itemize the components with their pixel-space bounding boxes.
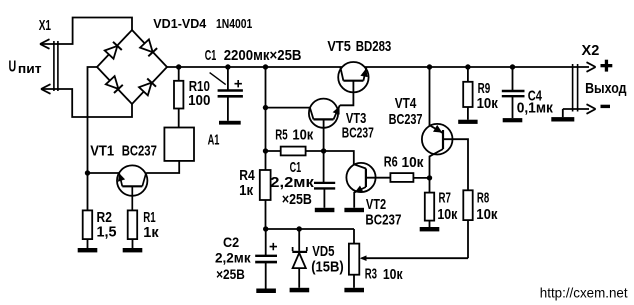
svg-text:R3: R3	[365, 266, 377, 282]
svg-text:(15В): (15В)	[311, 259, 344, 275]
svg-text:R5: R5	[275, 127, 287, 143]
svg-text:U: U	[9, 58, 17, 75]
svg-text:2,2мк: 2,2мк	[270, 175, 314, 191]
svg-text:R8: R8	[477, 190, 489, 206]
svg-text:10к: 10к	[383, 267, 403, 283]
svg-text:A1: A1	[208, 132, 220, 148]
svg-text:C2: C2	[223, 235, 239, 250]
svg-text:BD283: BD283	[356, 39, 392, 55]
svg-text:0,1мк: 0,1мк	[517, 100, 554, 116]
svg-text:×25В: ×25В	[282, 192, 312, 208]
svg-text:1к: 1к	[239, 183, 254, 199]
svg-text:пит: пит	[18, 61, 42, 76]
svg-text:R6: R6	[384, 155, 398, 171]
svg-text:10к: 10к	[476, 207, 498, 223]
svg-text:BC237: BC237	[342, 126, 374, 142]
svg-text:X1: X1	[39, 18, 51, 34]
svg-text:VT4: VT4	[395, 96, 417, 112]
svg-text:X2: X2	[582, 43, 600, 59]
svg-text:10к: 10к	[477, 96, 499, 112]
svg-text:VT5: VT5	[327, 39, 350, 55]
svg-text:R4: R4	[239, 168, 255, 184]
svg-text:10к: 10к	[437, 207, 458, 223]
svg-text:VT3: VT3	[346, 111, 366, 127]
svg-text:R9: R9	[478, 81, 491, 97]
svg-text:BC237: BC237	[365, 212, 401, 228]
svg-text:VT1: VT1	[90, 143, 114, 159]
svg-text:BC237: BC237	[122, 143, 157, 159]
svg-text:VT2: VT2	[366, 197, 386, 213]
svg-text:2200мк×25В: 2200мк×25В	[224, 48, 302, 64]
svg-text:2,2мк: 2,2мк	[215, 251, 251, 266]
svg-text:R7: R7	[439, 190, 451, 206]
svg-text:VD1-VD4: VD1-VD4	[153, 16, 207, 31]
svg-text:10к: 10к	[292, 128, 314, 144]
svg-text:1N4001: 1N4001	[216, 16, 252, 31]
svg-text:Выход: Выход	[585, 81, 626, 97]
svg-text:1к: 1к	[143, 225, 159, 241]
svg-text:R1: R1	[143, 210, 155, 226]
svg-text:C1: C1	[290, 160, 302, 176]
svg-text:VD5: VD5	[312, 244, 334, 260]
svg-text:1,5: 1,5	[97, 225, 117, 241]
svg-text:http://cxem.net: http://cxem.net	[540, 285, 628, 301]
svg-text:10к: 10к	[402, 155, 425, 171]
svg-text:×25В: ×25В	[216, 267, 245, 282]
svg-text:100: 100	[188, 93, 210, 109]
svg-text:C1: C1	[205, 48, 217, 64]
svg-text:BC237: BC237	[389, 112, 423, 128]
